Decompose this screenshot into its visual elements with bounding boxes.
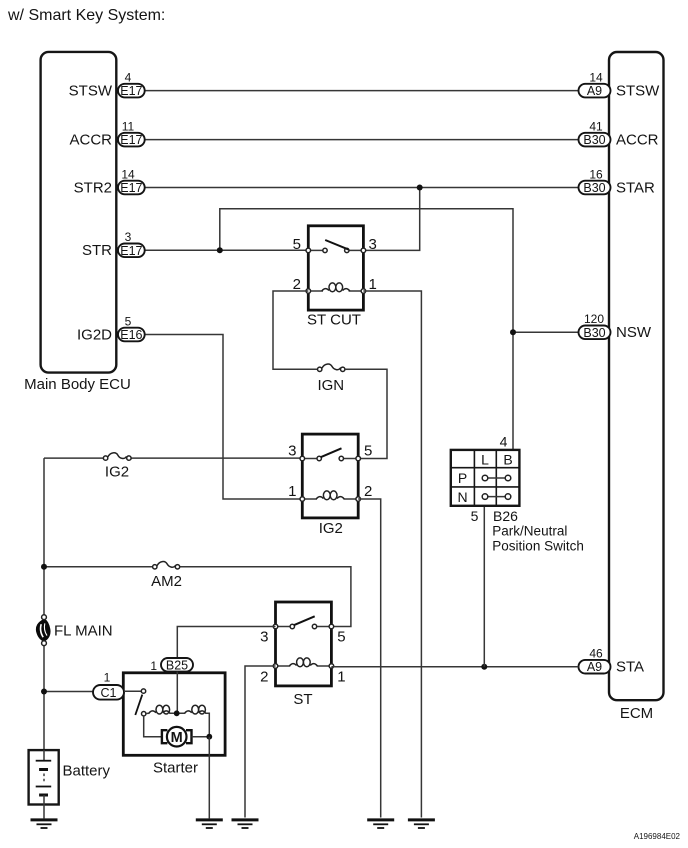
svg-text:E16: E16 (120, 328, 142, 342)
svg-text:B30: B30 (583, 181, 605, 195)
node junction STA / Park-Neutral L (481, 664, 487, 670)
svg-text:ACCR: ACCR (69, 131, 112, 148)
svg-text:STR: STR (82, 242, 112, 259)
wire B25 into starter coil (176, 672, 178, 713)
Main Body ECU (41, 52, 117, 373)
svg-text:NSW: NSW (616, 324, 652, 341)
wire NSW (junction to B30 NSW) (513, 331, 579, 333)
svg-text:11: 11 (122, 120, 135, 134)
svg-text:1: 1 (150, 659, 157, 673)
svg-text:STR2: STR2 (74, 179, 112, 196)
wire ST pin 3 to B25 connector (177, 627, 275, 659)
wire STSW (E17 to A9) (145, 90, 579, 92)
wire STR2 branch down to ST CUT pin 3 (363, 188, 419, 251)
node junction rail / C1 wire (41, 689, 47, 695)
svg-text:ACCR: ACCR (616, 131, 659, 148)
IG2 switch blade (321, 448, 342, 457)
motor M starter (167, 727, 187, 747)
svg-text:A9: A9 (587, 84, 602, 98)
ground (ST relay pin 2) (232, 820, 259, 828)
IG2 coil (302, 498, 317, 500)
svg-text:FL MAIN: FL MAIN (54, 623, 113, 640)
ST CUT switch contacts (308, 249, 323, 251)
fuse AM2 with wire to ST relay pin 5 (44, 566, 153, 568)
svg-text:Main Body ECU: Main Body ECU (24, 376, 131, 393)
svg-text:ST: ST (293, 691, 312, 708)
ST box pins (273, 624, 278, 629)
svg-text:3: 3 (125, 230, 132, 244)
wire battery to ground (43, 805, 45, 819)
wire STR (E17 to ST CUT pin 5) (145, 249, 309, 251)
wire IG2D (E16 to IG2 relay pin 1) (145, 335, 303, 500)
relay ST CUT box (308, 226, 363, 310)
wire ST CUT pin 1 to ground (363, 291, 421, 818)
wire left rail (IG2 fuse line down to battery) (43, 458, 45, 615)
ground (battery) (31, 820, 58, 828)
svg-text:AM2: AM2 (151, 573, 182, 590)
ST CUT box pins (306, 248, 311, 253)
relay IG2 box (302, 434, 358, 518)
node junction starter coils / B25 lead (174, 710, 180, 716)
wire Park/Neutral L pin down to STA (483, 506, 485, 667)
starter hold-in coil (185, 711, 192, 713)
wire ST pin 2 to ground (245, 666, 276, 818)
svg-text:IG2: IG2 (105, 464, 129, 481)
svg-text:Park/Neutral: Park/Neutral (492, 524, 567, 539)
svg-text:4: 4 (500, 434, 508, 450)
svg-text:E17: E17 (120, 133, 142, 147)
svg-text:120: 120 (584, 312, 604, 326)
svg-text:A9: A9 (587, 660, 602, 674)
svg-text:1: 1 (288, 483, 296, 500)
svg-text:41: 41 (589, 120, 603, 134)
relay ST box (276, 602, 332, 686)
svg-text:A196984E02: A196984E02 (634, 832, 681, 841)
ECM (609, 52, 664, 700)
svg-text:IG2D: IG2D (77, 326, 112, 343)
svg-text:B: B (503, 451, 512, 467)
wire ACCR (E17 to B30) (145, 139, 579, 141)
fusible link FL MAIN (36, 619, 50, 641)
svg-text:2: 2 (260, 669, 268, 686)
svg-text:E17: E17 (120, 181, 142, 195)
svg-text:IGN: IGN (317, 377, 344, 394)
wire IG2 pin 2 to ground (358, 499, 381, 818)
svg-text:B26: B26 (493, 508, 518, 524)
svg-text:ST CUT: ST CUT (307, 312, 361, 329)
svg-text:5: 5 (125, 314, 132, 328)
starter assembly box (123, 673, 225, 756)
svg-text:Position Switch: Position Switch (492, 539, 584, 554)
wire IGN fuse to IG2 relay pin 5 (345, 369, 387, 458)
Park/Neutral N row contacts (488, 496, 505, 498)
svg-text:2: 2 (364, 483, 372, 500)
svg-text:IG2: IG2 (319, 520, 343, 537)
svg-text:3: 3 (260, 629, 268, 646)
svg-text:5: 5 (293, 236, 301, 253)
wire STR branch to NSW net (up and across to Park/Neutral switch B pin) (220, 209, 513, 450)
starter switch blade (135, 695, 142, 715)
node junction STR2/ST CUT pin 3 (417, 185, 423, 191)
svg-text:L: L (481, 451, 489, 467)
ST switch contacts (276, 626, 291, 628)
svg-text:w/ Smart Key System:: w/ Smart Key System: (7, 7, 165, 24)
svg-text:Starter: Starter (153, 760, 198, 777)
wire coil terminal to motor left (144, 716, 162, 737)
wire battery feed to C1 (44, 691, 93, 693)
ground (starter) (196, 820, 223, 828)
svg-text:1: 1 (104, 671, 111, 685)
svg-text:STSW: STSW (616, 82, 660, 99)
ground (IG2 relay pin 2) (367, 820, 394, 828)
wire motor to ground junction (192, 736, 210, 738)
wire coil to motor right bus (205, 713, 209, 736)
svg-text:E17: E17 (120, 244, 142, 258)
svg-text:5: 5 (337, 629, 345, 646)
svg-text:P: P (458, 470, 467, 486)
svg-text:5: 5 (364, 443, 372, 460)
node junction motor/coil return (206, 734, 212, 740)
node junction NSW/Park-Neutral B (510, 329, 516, 335)
ST switch blade (294, 616, 315, 625)
fuse IG2 (44, 457, 103, 459)
svg-text:1: 1 (337, 669, 345, 686)
svg-text:STSW: STSW (69, 82, 113, 99)
svg-text:3: 3 (369, 236, 377, 253)
battery (29, 750, 59, 804)
wire STR2 (E17 to B30 STAR) (145, 187, 579, 189)
svg-text:STAR: STAR (616, 179, 655, 196)
IG2 box pins (300, 456, 305, 461)
wire ST CUT pin 2 to IGN fuse (273, 291, 317, 369)
svg-text:M: M (171, 730, 183, 746)
svg-text:ECM: ECM (620, 705, 653, 722)
svg-text:14: 14 (121, 167, 135, 181)
starter pull-in coil (146, 712, 150, 714)
ST coil (276, 665, 291, 667)
node junction STR/NSW branch (217, 247, 223, 253)
svg-text:B25: B25 (166, 658, 188, 672)
wire STA (ST pin 1 to A9 STA) (331, 666, 578, 668)
ST CUT switch blade (325, 240, 348, 250)
ground (ST CUT relay pin 1) (408, 820, 435, 828)
svg-text:N: N (457, 489, 467, 505)
svg-text:E17: E17 (120, 84, 142, 98)
Park/Neutral P row contacts (488, 477, 505, 479)
svg-text:STA: STA (616, 659, 644, 676)
svg-text:B30: B30 (583, 326, 605, 340)
svg-text:Battery: Battery (63, 763, 111, 780)
node junction left rail / AM2 (41, 564, 47, 570)
starter coil terminal (142, 712, 146, 716)
fuse IGN (345, 368, 350, 370)
svg-text:46: 46 (589, 647, 603, 661)
svg-text:C1: C1 (101, 686, 117, 700)
svg-text:16: 16 (589, 167, 603, 181)
svg-text:5: 5 (471, 508, 479, 524)
svg-text:B30: B30 (583, 133, 605, 147)
svg-text:3: 3 (288, 443, 296, 460)
IG2 switch contacts (302, 458, 317, 460)
starter magnetic switch contact (124, 690, 141, 692)
svg-text:4: 4 (125, 71, 132, 85)
wire starter to ground (208, 737, 210, 819)
ST CUT coil (308, 290, 323, 292)
svg-text:14: 14 (589, 71, 603, 85)
